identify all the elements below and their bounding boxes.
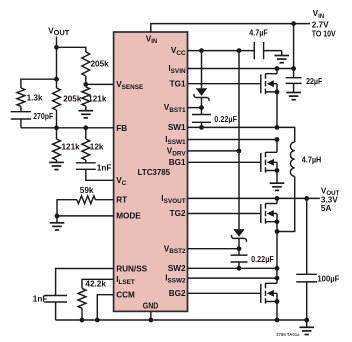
svg-text:22µF: 22µF xyxy=(306,77,322,86)
wire cap to SW1 xyxy=(201,122,203,127)
wire VOUT top row xyxy=(57,47,86,52)
svg-text:59k: 59k xyxy=(80,186,94,195)
node VOUT junction xyxy=(54,45,59,50)
pin label ISVOUT xyxy=(161,194,185,205)
capacitor 1nF soft-start xyxy=(33,294,67,303)
svg-text:RT: RT xyxy=(116,196,127,205)
wire rail end ground stem xyxy=(306,320,308,327)
svg-text:RUN/SS: RUN/SS xyxy=(116,264,147,273)
svg-text:TG1: TG1 xyxy=(170,79,186,88)
node VCC-D2 junction xyxy=(237,48,242,53)
pin label VCC xyxy=(171,46,186,57)
resistor 1.3k xyxy=(17,88,43,106)
pin label BG1 xyxy=(169,158,186,167)
svg-text:4.7µF: 4.7µF xyxy=(249,29,267,38)
pin label VBST1 xyxy=(164,103,186,114)
svg-text:BG1: BG1 xyxy=(169,158,186,167)
svg-text:CCM: CCM xyxy=(116,291,135,300)
capacitor 22uF input xyxy=(286,77,323,86)
node VOUT right label xyxy=(321,187,340,213)
wire 42.2k to rail xyxy=(81,308,83,320)
wire Q2 source to ground xyxy=(276,171,278,184)
ground rail end xyxy=(299,327,314,334)
svg-text:GND: GND xyxy=(143,302,159,311)
wire MODE to ground xyxy=(56,216,58,223)
wire ISVIN row xyxy=(188,68,294,70)
inductor L1 4.7uH xyxy=(290,142,321,176)
capacitor 1nF compensation xyxy=(76,163,112,173)
svg-text:FB: FB xyxy=(116,124,127,133)
pin label SW2 xyxy=(168,264,186,273)
ground under 121k mid xyxy=(79,111,94,118)
wire ILSET row xyxy=(82,279,114,288)
svg-text:121k: 121k xyxy=(88,95,107,104)
node C-SW2 junction xyxy=(237,266,242,271)
wire 270pF to FB row xyxy=(20,119,22,128)
wire ground rail xyxy=(56,319,307,321)
svg-text:0.22µF: 0.22µF xyxy=(251,255,274,264)
wire Q1 source to SW1 xyxy=(276,92,278,128)
node 42.2k rail junction xyxy=(80,318,85,323)
pin label VDRV xyxy=(167,147,187,158)
wire FB to 12k xyxy=(85,128,87,139)
resistor 205k upper-left xyxy=(53,88,82,110)
wire FB row xyxy=(21,127,114,129)
svg-text:100µF: 100µF xyxy=(317,275,339,284)
node FB junction B xyxy=(83,125,88,130)
node rail end junction xyxy=(304,318,309,323)
capacitor 100uF output xyxy=(296,274,339,283)
node VIN label xyxy=(312,9,336,38)
svg-text:1nF: 1nF xyxy=(97,164,112,173)
wire to 1.3k branch xyxy=(21,79,57,88)
pin label CCM xyxy=(116,291,135,300)
wire VBST2 row xyxy=(188,248,240,250)
wire Q2 drain xyxy=(276,140,278,153)
pin label RUN/SS xyxy=(116,264,147,273)
wire VBST1 to cap xyxy=(201,108,203,115)
resistor 205k upper-mid xyxy=(82,52,109,76)
node ISSW2 junction xyxy=(275,276,280,281)
node ISSW1 junction xyxy=(275,137,280,142)
wire ISSW1 row xyxy=(188,139,278,141)
node CCM rail junction xyxy=(95,318,100,323)
pin label ISVIN xyxy=(168,64,186,75)
pin label RT xyxy=(116,196,127,205)
node feedforward junction xyxy=(54,77,59,82)
wire 205k to FB xyxy=(56,110,58,128)
node SW2 junction xyxy=(275,266,280,271)
pin label VC xyxy=(116,176,126,187)
op-amp U1 LTC3785 controller IC body xyxy=(114,32,188,311)
capacitor 4.7uF VCC bypass xyxy=(249,29,267,60)
svg-text:0.22µF: 0.22µF xyxy=(214,115,237,124)
wire FB to 121k lower xyxy=(56,128,58,139)
svg-text:42.2k: 42.2k xyxy=(85,280,106,289)
wire 1.3k to 270pF xyxy=(20,106,22,111)
capacitor 270pF xyxy=(11,112,54,122)
wire to 22uF xyxy=(293,69,295,78)
svg-text:121k: 121k xyxy=(62,142,81,151)
transistor Q3 switch D (TG2) xyxy=(188,203,277,224)
pin label VIN xyxy=(146,34,157,45)
ground 4.7uF xyxy=(274,56,289,63)
transistor Q4 switch C (BG2) xyxy=(188,283,277,304)
wire Q3 drain xyxy=(276,198,278,203)
node VSENSE junction xyxy=(83,82,88,87)
pin label MODE xyxy=(116,212,141,221)
svg-text:TG2: TG2 xyxy=(170,209,186,218)
svg-text:BG2: BG2 xyxy=(169,289,186,298)
node ISVOUT-Q3 junction xyxy=(275,196,280,201)
wire VBST1 row xyxy=(188,107,202,109)
svg-text:MODE: MODE xyxy=(116,212,141,221)
wire 22uF to ground xyxy=(293,83,295,92)
wire Q3 source to Q4 drain xyxy=(276,222,278,284)
ground Q2 xyxy=(270,183,285,190)
svg-text:3785 TA01a: 3785 TA01a xyxy=(276,332,300,337)
wire VCC row xyxy=(188,50,255,52)
wire 12k to 1nF xyxy=(85,160,87,163)
capacitor 0.22uF boost 2 xyxy=(231,255,274,264)
resistor 42.2k xyxy=(78,280,106,309)
svg-text:SW2: SW2 xyxy=(168,264,186,273)
pin label VSENSE xyxy=(116,80,144,91)
wire ISSW2 row xyxy=(188,277,278,279)
pin label TG1 xyxy=(170,79,186,88)
wire VIN rail drop xyxy=(293,24,295,69)
node FB junction A xyxy=(54,125,59,130)
wire 100uF drop xyxy=(306,198,308,274)
resistor 121k mid xyxy=(82,87,107,106)
svg-text:205k: 205k xyxy=(63,95,82,104)
svg-text:2.7V: 2.7V xyxy=(312,20,329,29)
wire L1 to SW2 xyxy=(277,176,295,231)
pin label BG2 xyxy=(169,289,186,298)
wire 121k lower to ground xyxy=(56,160,58,162)
wire ISVOUT row xyxy=(188,197,320,199)
wire 1nF to VC pin xyxy=(86,169,114,180)
node ISVIN-Q1 junction xyxy=(275,66,280,71)
wire RUN/SS row xyxy=(56,269,114,296)
node Q3 source junction xyxy=(275,219,280,224)
wire 121k to ground xyxy=(85,106,87,111)
node VBST1 junction xyxy=(199,105,204,110)
node GND rail junction xyxy=(148,318,153,323)
node ISVIN-VIN junction xyxy=(291,66,296,71)
node Q1 source junction xyxy=(275,90,280,95)
pin label SW1 xyxy=(168,123,186,132)
pin label TG2 xyxy=(170,209,186,218)
wire 59k to MODE node xyxy=(57,200,77,216)
node Q4 source junction xyxy=(275,299,280,304)
node VIN rail junction xyxy=(291,21,296,26)
pin label ISSW2 xyxy=(165,274,186,285)
ground under 121k lower xyxy=(49,162,64,169)
svg-text:270pF: 270pF xyxy=(33,112,53,121)
node VCC-D1 junction xyxy=(199,48,204,53)
pin label ISSW1 xyxy=(165,135,186,146)
wire VDRV row xyxy=(188,150,240,152)
wire Q1 drain xyxy=(276,69,278,74)
node SW1-Q junction xyxy=(275,125,280,130)
svg-text:TO 10V: TO 10V xyxy=(312,30,336,39)
wire Q4 source to rail xyxy=(276,302,278,321)
wire VBST2 to cap xyxy=(238,249,240,255)
resistor 121k lower xyxy=(53,139,81,160)
node VBST2 junction xyxy=(237,246,242,251)
wire RT row xyxy=(95,199,113,201)
svg-text:4.7µH: 4.7µH xyxy=(302,156,322,165)
svg-text:SW1: SW1 xyxy=(168,123,186,132)
node VOUT-100uF junction xyxy=(304,196,309,201)
svg-text:1.3k: 1.3k xyxy=(27,94,43,103)
node VDRV junction xyxy=(237,149,242,154)
pin label GND xyxy=(143,302,159,311)
pin label ILSET xyxy=(116,275,135,286)
pin label FB xyxy=(116,124,127,133)
diode D2 bootstrap xyxy=(232,51,247,249)
wire VOUT stem xyxy=(56,37,58,48)
wire SW1 row xyxy=(188,127,295,142)
resistor 12k xyxy=(82,139,104,160)
wire SW2 row xyxy=(188,267,278,269)
node SW2 hook junction xyxy=(275,229,280,234)
svg-text:5A: 5A xyxy=(321,204,332,213)
node C-SW1 junction xyxy=(199,125,204,130)
resistor 59k xyxy=(77,186,96,203)
svg-text:12k: 12k xyxy=(90,142,104,151)
svg-text:LTC3785: LTC3785 xyxy=(138,168,171,177)
capacitor 0.22uF boost 1 xyxy=(192,115,237,124)
node MODE junction xyxy=(55,214,60,219)
transistor Q1 switch A (TG1) xyxy=(188,73,277,94)
wire VOUT column xyxy=(56,47,58,88)
wire cap to SW2 row xyxy=(238,262,240,268)
wire MODE row xyxy=(57,215,114,217)
transistor Q2 switch B (BG1) xyxy=(188,152,277,173)
svg-text:VOUT: VOUT xyxy=(48,26,70,37)
svg-text:205k: 205k xyxy=(91,60,110,69)
ground MODE xyxy=(50,223,65,230)
ground 22uF xyxy=(286,93,301,100)
svg-text:VIN: VIN xyxy=(313,9,325,20)
diode D1 bootstrap xyxy=(194,51,209,108)
svg-text:1nF: 1nF xyxy=(33,294,48,303)
node Q2 source junction xyxy=(275,168,280,173)
wire VSENSE row xyxy=(86,83,114,85)
node VOUT top-left label xyxy=(48,26,70,37)
pin label VBST2 xyxy=(164,244,186,255)
wire CCM row xyxy=(97,295,113,320)
node figure tag xyxy=(276,332,300,337)
wire VIN pin to rail xyxy=(151,24,310,32)
node Q4 rail junction xyxy=(275,318,280,323)
wire 4.7uF to ground xyxy=(264,51,282,56)
wire GND pin stem xyxy=(150,311,152,320)
wire 1nF to rail xyxy=(55,302,57,320)
wire 205k to VSENSE xyxy=(85,76,87,84)
wire 100uF to rail xyxy=(306,282,308,320)
